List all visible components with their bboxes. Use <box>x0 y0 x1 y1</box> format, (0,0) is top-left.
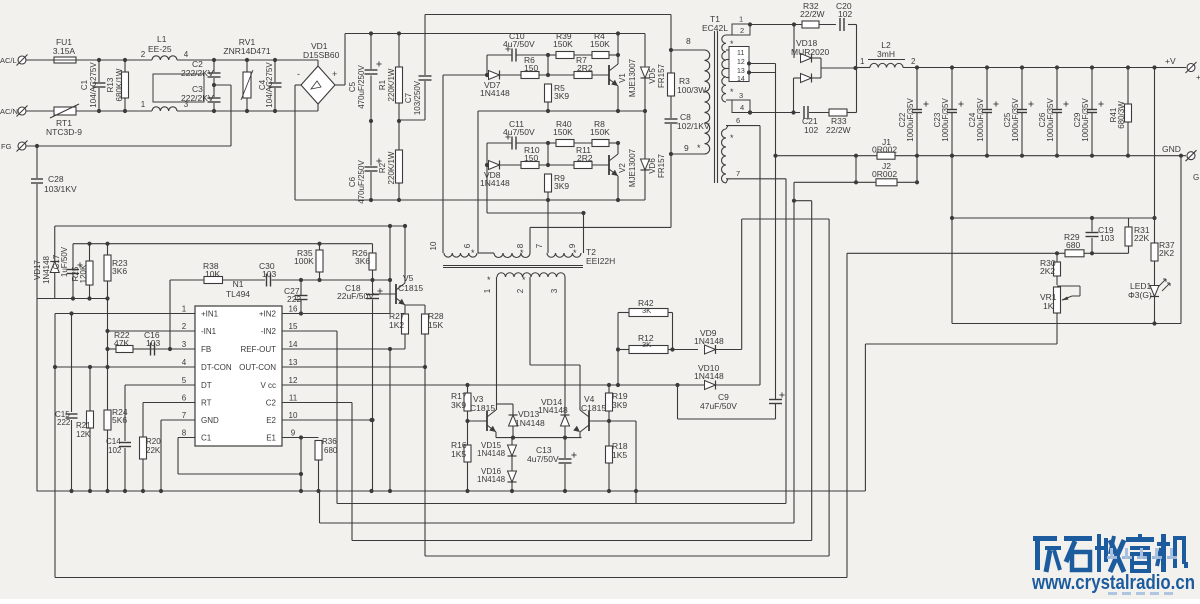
svg-text:3K6: 3K6 <box>112 266 127 276</box>
svg-text:10: 10 <box>429 241 438 250</box>
svg-text:+IN1: +IN1 <box>201 310 219 319</box>
svg-text:EE-25: EE-25 <box>148 44 172 54</box>
svg-text:-IN1: -IN1 <box>201 327 217 336</box>
svg-text:*: * <box>573 248 577 258</box>
svg-text:1000uF/35V: 1000uF/35V <box>976 98 985 142</box>
svg-text:7: 7 <box>535 243 544 248</box>
svg-text:+V: +V <box>1165 56 1176 66</box>
svg-text:DT-CON: DT-CON <box>201 363 232 372</box>
svg-text:C28: C28 <box>48 174 64 184</box>
svg-text:14: 14 <box>289 340 298 349</box>
svg-text:ZNR14D471: ZNR14D471 <box>223 46 271 56</box>
svg-text:VD5: VD5 <box>648 68 657 84</box>
svg-text:1N4148: 1N4148 <box>477 449 506 458</box>
svg-text:3K: 3K <box>642 340 651 349</box>
svg-text:*: * <box>730 87 734 97</box>
svg-text:V cc: V cc <box>260 381 276 390</box>
svg-text:OUT-CON: OUT-CON <box>239 363 276 372</box>
svg-text:1N4148: 1N4148 <box>42 255 51 284</box>
svg-text:MJE13007: MJE13007 <box>628 148 637 187</box>
svg-text:3mH: 3mH <box>877 49 895 59</box>
svg-text:C1815: C1815 <box>398 283 423 293</box>
svg-text:150K: 150K <box>590 127 610 137</box>
svg-text:1K2: 1K2 <box>389 320 404 330</box>
svg-text:R21: R21 <box>76 421 91 430</box>
svg-text:5: 5 <box>182 376 187 385</box>
svg-text:0R002: 0R002 <box>872 145 897 155</box>
svg-text:2K2: 2K2 <box>1040 266 1055 276</box>
svg-text:47K: 47K <box>114 338 129 348</box>
svg-text:7: 7 <box>736 169 740 178</box>
svg-text:*: * <box>697 143 701 153</box>
svg-text:104/AC275V: 104/AC275V <box>89 62 98 108</box>
svg-text:15: 15 <box>289 322 298 331</box>
svg-text:4u7/50V: 4u7/50V <box>527 454 559 464</box>
svg-text:22uF/50V: 22uF/50V <box>337 291 374 301</box>
svg-text:11: 11 <box>737 50 744 57</box>
svg-text:2K2: 2K2 <box>1159 248 1174 258</box>
svg-text:1N4148: 1N4148 <box>477 475 506 484</box>
svg-text:DT: DT <box>201 381 212 390</box>
svg-text:3K9: 3K9 <box>554 91 569 101</box>
svg-text:3K9: 3K9 <box>554 181 569 191</box>
svg-text:2R2: 2R2 <box>577 63 593 73</box>
svg-text:MJE13007: MJE13007 <box>628 58 637 97</box>
svg-text:1N4148: 1N4148 <box>515 418 545 428</box>
svg-text:3K9: 3K9 <box>612 400 627 410</box>
svg-text:4u7/50V: 4u7/50V <box>503 39 535 49</box>
svg-text:R20: R20 <box>146 437 161 446</box>
svg-text:22K: 22K <box>146 446 161 455</box>
svg-text:470uF/250V: 470uF/250V <box>357 65 366 109</box>
svg-text:*: * <box>730 133 734 143</box>
svg-text:1000uF/35V: 1000uF/35V <box>1011 98 1020 142</box>
svg-text:*: * <box>471 248 475 258</box>
svg-text:10K: 10K <box>205 269 220 279</box>
svg-text:C1815: C1815 <box>470 403 495 413</box>
svg-text:1N4148: 1N4148 <box>694 336 724 346</box>
svg-text:V1: V1 <box>618 73 627 83</box>
svg-text:3K6: 3K6 <box>355 256 370 266</box>
svg-text:D15SB60: D15SB60 <box>303 50 340 60</box>
svg-text:1: 1 <box>141 100 146 109</box>
svg-text:R2: R2 <box>378 162 387 173</box>
svg-text:C14: C14 <box>106 437 121 446</box>
svg-text:6: 6 <box>736 116 740 125</box>
svg-text:2: 2 <box>516 288 525 293</box>
svg-text:11: 11 <box>289 394 298 403</box>
svg-text:VD17: VD17 <box>33 259 42 280</box>
svg-text:1000uF/35V: 1000uF/35V <box>1081 98 1090 142</box>
svg-text:12: 12 <box>737 59 745 66</box>
svg-text:470uF/250V: 470uF/250V <box>357 160 366 204</box>
svg-text:8: 8 <box>686 36 691 46</box>
svg-text:1: 1 <box>483 288 492 293</box>
svg-text:6: 6 <box>182 394 187 403</box>
svg-text:+IN2: +IN2 <box>259 310 277 319</box>
svg-text:4: 4 <box>740 103 744 112</box>
svg-text:22/2W: 22/2W <box>826 125 851 135</box>
svg-text:R1: R1 <box>378 79 387 90</box>
svg-text:www.crystalradio.cn: www.crystalradio.cn <box>1031 572 1195 594</box>
svg-text:NTC3D-9: NTC3D-9 <box>46 127 82 137</box>
svg-text:R13: R13 <box>106 77 115 92</box>
svg-text:103: 103 <box>1100 233 1114 243</box>
svg-text:V2: V2 <box>618 163 627 173</box>
svg-text:+: + <box>1196 73 1200 82</box>
svg-text:100/3W: 100/3W <box>677 85 706 95</box>
svg-text:0R002: 0R002 <box>872 169 897 179</box>
svg-text:22/2W: 22/2W <box>800 9 825 19</box>
svg-text:4: 4 <box>182 358 187 367</box>
svg-text:47uF/50V: 47uF/50V <box>700 401 737 411</box>
svg-text:EEI22H: EEI22H <box>586 256 615 266</box>
svg-text:2: 2 <box>740 26 744 35</box>
svg-text:222: 222 <box>57 418 71 427</box>
svg-text:15K: 15K <box>428 320 443 330</box>
svg-text:FB: FB <box>201 345 211 354</box>
svg-text:220K/1W: 220K/1W <box>387 151 396 184</box>
svg-text:3: 3 <box>739 91 743 100</box>
svg-text:GND: GND <box>201 416 219 425</box>
svg-text:680: 680 <box>1066 240 1080 250</box>
svg-text:MUR2020: MUR2020 <box>791 47 830 57</box>
svg-text:150K: 150K <box>553 127 573 137</box>
svg-text:-: - <box>297 69 300 79</box>
svg-text:C1: C1 <box>201 434 212 443</box>
svg-text:1N4148: 1N4148 <box>538 405 568 415</box>
svg-text:*: * <box>520 248 524 258</box>
svg-text:3K: 3K <box>642 306 651 315</box>
svg-text:C1: C1 <box>80 79 89 90</box>
svg-text:C7: C7 <box>404 92 413 103</box>
svg-text:150K: 150K <box>553 39 573 49</box>
svg-text:150K: 150K <box>590 39 610 49</box>
svg-text:FR157: FR157 <box>657 153 666 178</box>
svg-text:R36: R36 <box>322 437 337 446</box>
svg-text:22K: 22K <box>1134 233 1149 243</box>
svg-text:-IN2: -IN2 <box>261 327 277 336</box>
svg-text:C6: C6 <box>348 176 357 187</box>
svg-text:222/2KV: 222/2KV <box>181 93 214 103</box>
svg-text:1000uF/35V: 1000uF/35V <box>906 98 915 142</box>
svg-text:220K/1W: 220K/1W <box>387 68 396 101</box>
svg-text:103: 103 <box>262 269 276 279</box>
svg-text:9: 9 <box>291 429 296 438</box>
svg-text:L1: L1 <box>157 34 167 44</box>
svg-text:104/AC275V: 104/AC275V <box>265 62 274 108</box>
svg-text:3: 3 <box>182 340 187 349</box>
svg-text:8: 8 <box>182 429 187 438</box>
svg-text:7: 7 <box>182 411 187 420</box>
svg-text:12: 12 <box>289 376 298 385</box>
svg-text:1: 1 <box>860 57 865 66</box>
svg-text:4: 4 <box>184 50 189 59</box>
svg-text:13: 13 <box>289 358 298 367</box>
svg-text:1000uF/35V: 1000uF/35V <box>941 98 950 142</box>
svg-text:2R2: 2R2 <box>577 153 593 163</box>
svg-text:Φ3(G): Φ3(G) <box>1128 290 1152 300</box>
svg-text:222/2KV: 222/2KV <box>181 68 214 78</box>
svg-text:1K5: 1K5 <box>451 449 466 459</box>
svg-text:102: 102 <box>804 125 818 135</box>
svg-text:103/1KV: 103/1KV <box>44 184 77 194</box>
svg-text:3: 3 <box>550 288 559 293</box>
svg-text:103: 103 <box>146 338 160 348</box>
svg-text:E1: E1 <box>266 434 276 443</box>
svg-text:150: 150 <box>524 63 538 73</box>
svg-text:C2: C2 <box>266 399 277 408</box>
svg-text:1N4148: 1N4148 <box>480 178 510 188</box>
svg-text:FG: FG <box>1 142 12 151</box>
svg-text:AC/N: AC/N <box>0 107 18 116</box>
svg-text:GND: GND <box>1162 144 1181 154</box>
svg-text:AC/L: AC/L <box>0 56 17 65</box>
svg-text:TL494: TL494 <box>226 289 250 299</box>
svg-text:1000uF/35V: 1000uF/35V <box>1046 98 1055 142</box>
svg-text:EC42L: EC42L <box>702 23 728 33</box>
svg-text:3K9: 3K9 <box>451 400 466 410</box>
svg-text:150: 150 <box>524 153 538 163</box>
svg-text:2: 2 <box>141 50 146 59</box>
svg-text:1N4148: 1N4148 <box>480 88 510 98</box>
svg-text:FR157: FR157 <box>657 63 666 88</box>
svg-text:680/3W: 680/3W <box>1117 101 1126 129</box>
svg-text:*: * <box>487 275 491 285</box>
svg-text:RT: RT <box>201 399 212 408</box>
svg-text:16: 16 <box>289 305 298 314</box>
svg-text:12K: 12K <box>76 430 91 439</box>
svg-text:C5: C5 <box>348 81 357 92</box>
svg-text:C1815: C1815 <box>581 403 606 413</box>
svg-text:REF-OUT: REF-OUT <box>240 345 276 354</box>
svg-text:102: 102 <box>108 446 122 455</box>
svg-text:102: 102 <box>838 9 852 19</box>
svg-text:E2: E2 <box>266 416 276 425</box>
svg-text:*: * <box>522 275 526 285</box>
svg-text:2: 2 <box>911 57 916 66</box>
svg-text:9: 9 <box>684 143 689 153</box>
svg-text:100K: 100K <box>294 256 314 266</box>
svg-text:680: 680 <box>324 446 338 455</box>
svg-text:1N4148: 1N4148 <box>694 371 724 381</box>
svg-text:10: 10 <box>289 411 298 420</box>
svg-text:+: + <box>332 69 337 79</box>
svg-text:1: 1 <box>182 305 187 314</box>
svg-text:1uF/50V: 1uF/50V <box>60 246 69 277</box>
svg-text:1K: 1K <box>1043 301 1054 311</box>
svg-text:222: 222 <box>287 294 301 304</box>
svg-text:3.15A: 3.15A <box>53 46 76 56</box>
svg-text:14: 14 <box>737 76 745 83</box>
svg-text:120K: 120K <box>79 264 88 283</box>
svg-text:1K5: 1K5 <box>612 450 627 460</box>
svg-text:4u7/50V: 4u7/50V <box>503 127 535 137</box>
svg-text:1: 1 <box>739 15 743 24</box>
svg-text:13: 13 <box>737 68 745 75</box>
svg-text:G: G <box>1193 173 1199 182</box>
svg-text:680K/1W: 680K/1W <box>115 68 124 101</box>
svg-text:2: 2 <box>182 322 187 331</box>
svg-text:103/250V: 103/250V <box>413 80 422 115</box>
